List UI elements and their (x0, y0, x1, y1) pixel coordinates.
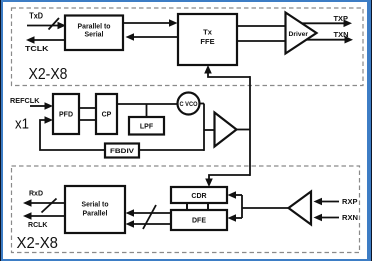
wire RXN input (314, 214, 340, 222)
wire into DFE (228, 214, 243, 222)
wire clock branch to CDR (205, 175, 250, 187)
svg-text:FBDIV: FBDIV (110, 148, 135, 155)
svg-text:CP: CP (102, 112, 112, 119)
svg-text:DFE: DFE (192, 218, 206, 225)
svg-text:x1: x1 (15, 116, 29, 133)
driver amplifier triangle (286, 13, 317, 54)
wire RXP input (314, 198, 340, 206)
label REFCLK (10, 98, 40, 105)
wire node to FBDIV (139, 149, 204, 151)
svg-text:RXP: RXP (342, 199, 358, 206)
svg-text:Serial: Serial (85, 32, 104, 39)
svg-text:TXP: TXP (334, 14, 349, 23)
VCO circle (178, 93, 200, 115)
svg-text:Serial to: Serial to (82, 202, 109, 209)
svg-text:X2-X8: X2-X8 (17, 235, 59, 252)
label X2-X8 (TX) (29, 66, 68, 83)
label x1 (15, 116, 29, 133)
wire TXN output (303, 36, 353, 44)
block Tx FFE (178, 14, 237, 65)
svg-text:CDR: CDR (191, 193, 206, 200)
svg-text:FFE: FFE (200, 37, 214, 46)
wire splitter vertical (241, 195, 243, 218)
block CDR (171, 187, 227, 203)
wire clock branch to Tx FFE (204, 65, 250, 77)
svg-text:RXN: RXN (342, 215, 358, 222)
wire feedback into PFD (40, 116, 105, 150)
wire VCO output node (200, 103, 205, 105)
CDR-DFE connector right (207, 203, 209, 210)
wire FFE to Driver lower (237, 40, 286, 42)
RX channel dashed box (12, 166, 360, 253)
wire RX amp to splitter (242, 207, 289, 209)
wire TxD input (27, 22, 66, 30)
svg-text:PFD: PFD (59, 112, 73, 119)
label TCLK (25, 44, 49, 53)
wire Tx FFE to P2S feedback (126, 33, 179, 41)
svg-text:Driver: Driver (289, 31, 309, 38)
block CP (96, 94, 117, 134)
wire buffer to clock trunk (237, 129, 251, 131)
svg-text:X2-X8: X2-X8 (29, 66, 68, 83)
wire REFCLK input (30, 102, 53, 110)
label TxD (29, 12, 43, 21)
TX channel dashed box (12, 8, 364, 86)
label TXN (334, 30, 349, 39)
svg-text:LPF: LPF (140, 124, 154, 131)
wire node to clock buffer (204, 129, 215, 131)
block DFE (171, 210, 227, 230)
wire DFE to S2P lower (126, 220, 172, 228)
wire PFD to CP lower (79, 119, 96, 121)
wire FFE to Driver upper (237, 25, 286, 27)
wire clock trunk vertical (249, 76, 251, 176)
svg-text:RxD: RxD (29, 188, 44, 197)
clock buffer triangle (215, 113, 237, 147)
bus slash on RxD wire (42, 199, 57, 213)
svg-text:TXN: TXN (334, 30, 349, 39)
svg-text:Parallel: Parallel (83, 211, 108, 218)
svg-text:Tx: Tx (203, 28, 213, 37)
label TXP (334, 14, 349, 23)
svg-text:Parallel to: Parallel to (78, 24, 111, 31)
bus slash on TxD wire (49, 18, 60, 30)
RX amplifier triangle (289, 192, 312, 225)
label RxD (29, 188, 44, 197)
wire P2S to Tx FFE (123, 19, 178, 27)
block LPF (129, 117, 164, 135)
block FBDIV (105, 144, 139, 158)
label RXP (342, 199, 358, 206)
svg-text:REFCLK: REFCLK (10, 98, 40, 105)
svg-text:RCLK: RCLK (28, 220, 48, 229)
block PFD (53, 94, 79, 134)
wire DFE to S2P upper (126, 209, 172, 217)
wire CP to VCO (117, 103, 178, 105)
svg-text:C VCO: C VCO (180, 102, 198, 108)
label RCLK (28, 220, 48, 229)
label RXN (342, 215, 358, 222)
CDR-DFE connector left (186, 203, 188, 210)
block Serial to Parallel (65, 186, 125, 233)
wire PFD to CP upper (79, 107, 96, 109)
svg-text:TCLK: TCLK (25, 44, 49, 53)
wire RxD output (23, 199, 65, 207)
wire RCLK output (23, 212, 65, 220)
label X2-X8 (RX) (17, 235, 59, 252)
wire into CDR (228, 191, 243, 199)
svg-text:TxD: TxD (29, 12, 43, 21)
bus slash on DFE-S2P wires (143, 205, 156, 229)
wire TXP output (300, 20, 352, 28)
block Parallel to Serial (65, 16, 123, 51)
wire VCO node vertical (203, 104, 205, 151)
wire TCLK output (26, 36, 65, 44)
wire LPF stub (146, 104, 148, 117)
